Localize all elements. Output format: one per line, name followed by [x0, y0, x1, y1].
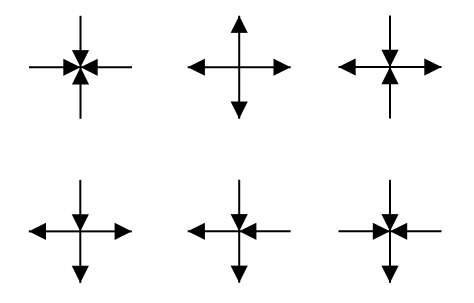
right-pointing arrowhead on right arm of junction 4 (at outer end)	[115, 223, 132, 240]
down-pointing arrowhead on top arm of junction 3 (at center)	[381, 50, 398, 67]
left-pointing arrowhead on right arm of junction 6 (at center)	[390, 223, 407, 240]
arrow junction 5: vertical downward flow, horizontal leftward flow	[188, 180, 291, 283]
arrow junction 4: vertical downward flow, horizontal outward	[29, 180, 132, 283]
left-pointing arrowhead on left arm of junction 2 (at outer end)	[188, 59, 205, 76]
horizontal wire of junction 1	[29, 66, 132, 68]
horizontal wire of junction 5	[188, 230, 291, 232]
up-pointing arrowhead on bottom arm of junction 1 (at center)	[72, 67, 89, 84]
up-pointing arrowhead on top arm of junction 2 (at outer end)	[231, 16, 248, 33]
down-pointing arrowhead on bottom arm of junction 2 (at outer end)	[231, 102, 248, 119]
down-pointing arrowhead on bottom arm of junction 5 (at outer end)	[231, 266, 248, 283]
left-pointing arrowhead on left arm of junction 3 (at outer end)	[339, 58, 356, 75]
vertical wire of junction 2	[238, 16, 240, 119]
horizontal wire of junction 2	[188, 66, 291, 68]
left-pointing arrowhead on right arm of junction 5 (at center)	[239, 223, 256, 240]
left-pointing arrowhead on left arm of junction 5 (at outer end)	[188, 223, 205, 240]
arrow junction 1: all arrows inward	[29, 16, 132, 119]
arrow junction 2: all arrows outward	[188, 16, 291, 119]
vertical wire of junction 1	[80, 16, 82, 119]
right-pointing arrowhead on left arm of junction 6 (at center)	[373, 223, 390, 240]
right-pointing arrowhead on right arm of junction 3 (at outer end)	[424, 58, 441, 75]
right-pointing arrowhead on right arm of junction 2 (at outer end)	[274, 59, 291, 76]
vertical wire of junction 4	[79, 180, 81, 283]
down-pointing arrowhead on bottom arm of junction 4 (at outer end)	[72, 266, 89, 283]
right-pointing arrowhead on left arm of junction 1 (at center)	[63, 59, 80, 76]
down-pointing arrowhead on top arm of junction 5 (at center)	[231, 214, 248, 231]
horizontal wire of junction 3	[339, 66, 442, 68]
arrow junction 3: vertical inward, horizontal outward	[339, 16, 442, 119]
horizontal wire of junction 4	[29, 230, 132, 232]
vertical wire of junction 3	[389, 16, 391, 119]
up-pointing arrowhead on bottom arm of junction 3 (at center)	[381, 67, 398, 84]
arrow junction 6: vertical downward flow, horizontal inward	[339, 180, 442, 283]
down-pointing arrowhead on top arm of junction 4 (at center)	[72, 214, 89, 231]
left-pointing arrowhead on right arm of junction 1 (at center)	[81, 59, 98, 76]
vertical wire of junction 6	[389, 180, 391, 283]
vertical wire of junction 5	[238, 180, 240, 283]
down-pointing arrowhead on top arm of junction 1 (at center)	[72, 50, 89, 67]
down-pointing arrowhead on bottom arm of junction 6 (at outer end)	[381, 266, 398, 283]
horizontal wire of junction 6	[339, 230, 442, 232]
down-pointing arrowhead on top arm of junction 6 (at center)	[381, 214, 398, 231]
left-pointing arrowhead on left arm of junction 4 (at outer end)	[29, 223, 46, 240]
